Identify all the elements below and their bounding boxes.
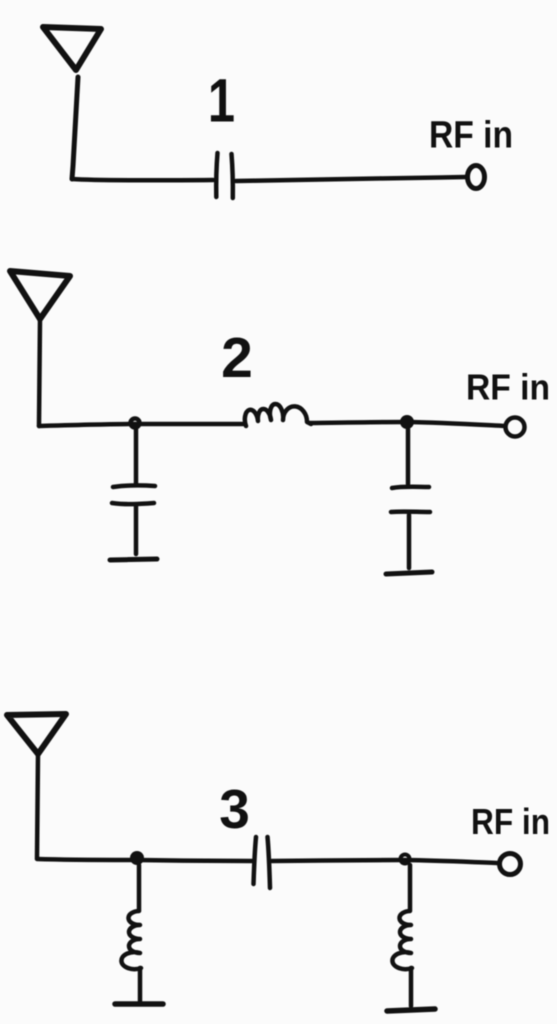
svg-text:3: 3: [219, 778, 250, 840]
svg-text:RF in: RF in: [466, 367, 550, 408]
svg-text:1: 1: [208, 66, 235, 134]
svg-text:2: 2: [221, 326, 253, 390]
svg-text:RF in: RF in: [429, 115, 513, 157]
svg-text:RF in: RF in: [471, 801, 550, 842]
